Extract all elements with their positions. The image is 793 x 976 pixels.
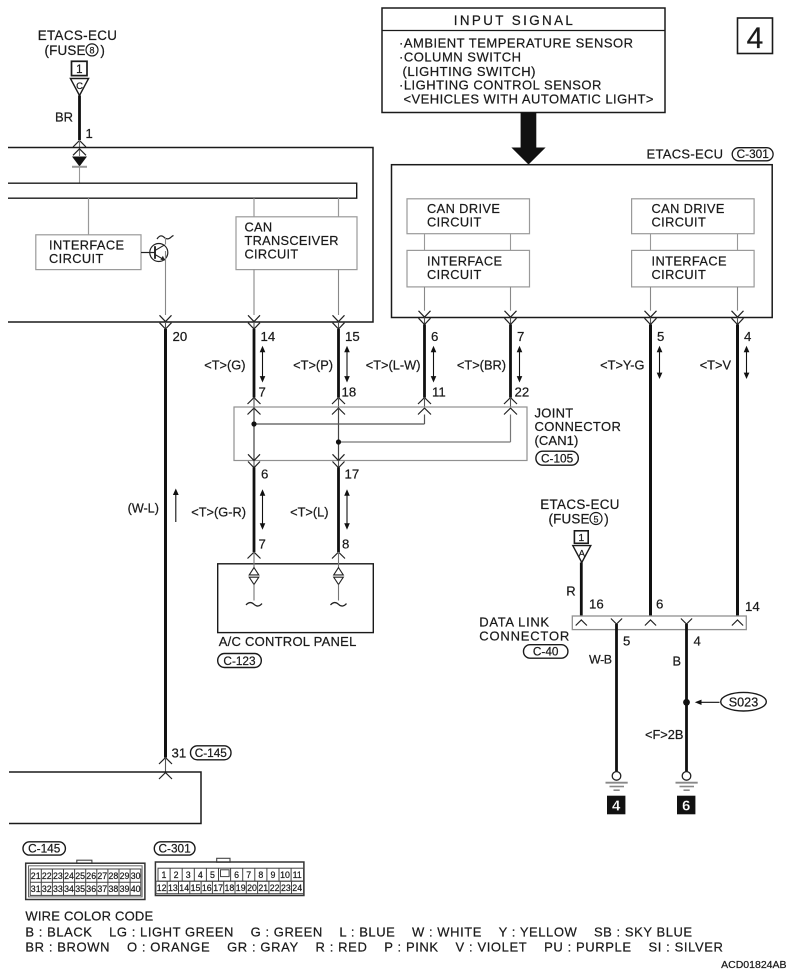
- svg-text:7: 7: [246, 870, 251, 880]
- svg-text:13: 13: [168, 883, 178, 893]
- joint connector exit marks (pins 6,17): [248, 454, 359, 481]
- svg-text:C-301: C-301: [159, 842, 191, 856]
- ground (pin 5 wire): [606, 772, 628, 791]
- svg-text:(CAN1): (CAN1): [535, 433, 579, 448]
- svg-text:4: 4: [694, 634, 701, 649]
- svg-text:ETACS-ECU: ETACS-ECU: [647, 147, 724, 162]
- A/C pin 7 entry marks and terminator: [246, 552, 262, 606]
- svg-text:30: 30: [131, 871, 141, 881]
- svg-text:2: 2: [174, 870, 179, 880]
- DLC exit marks pins 5,4: [611, 619, 701, 649]
- svg-text:11: 11: [432, 385, 446, 400]
- input signal arrow into ETACS-ECU: [511, 113, 545, 165]
- interface circuit box (left ECU): [36, 235, 141, 270]
- fuse 1 (FUSE 8): [72, 61, 88, 76]
- label C-301 (connector face): [154, 842, 195, 856]
- svg-text:16: 16: [589, 597, 604, 612]
- svg-text:7: 7: [259, 385, 266, 400]
- svg-text:·COLUMN SWITCH: ·COLUMN SWITCH: [399, 50, 522, 65]
- svg-text:16: 16: [202, 883, 212, 893]
- svg-text:B : BLACK LG : LIGHT GREEN: B : BLACK LG : LIGHT GREEN G : GREEN L :…: [25, 924, 692, 939]
- svg-text:17: 17: [345, 467, 360, 482]
- svg-text:<T>(P): <T>(P): [293, 358, 333, 373]
- svg-text:(FUSE: (FUSE: [45, 43, 86, 58]
- label C-145 (connector face): [23, 842, 65, 856]
- svg-text:31: 31: [172, 746, 187, 761]
- svg-text:34: 34: [64, 884, 74, 894]
- svg-text:C-301: C-301: [737, 147, 769, 161]
- fuse 1 (FUSE 5): [574, 531, 588, 544]
- page number box 4: [738, 18, 773, 55]
- wire color code: [25, 909, 723, 955]
- svg-text:25: 25: [75, 871, 85, 881]
- CAN transceiver circuit box: [236, 198, 357, 315]
- svg-text:CIRCUIT: CIRCUIT: [49, 251, 104, 266]
- svg-text:32: 32: [42, 884, 52, 894]
- A/C pin 8 entry marks and terminator: [331, 552, 347, 606]
- svg-text:15: 15: [345, 329, 360, 344]
- svg-text:36: 36: [86, 884, 96, 894]
- svg-text:4: 4: [744, 329, 751, 344]
- svg-text:21: 21: [31, 871, 41, 881]
- svg-text:·AMBIENT TEMPERATURE SENSOR: ·AMBIENT TEMPERATURE SENSOR: [399, 36, 634, 51]
- svg-text:6: 6: [682, 798, 690, 815]
- svg-text:S023: S023: [729, 695, 758, 709]
- svg-text:31: 31: [31, 884, 41, 894]
- interface circuit box (right ECU, right pair): [632, 234, 755, 311]
- connector A triangle: [573, 546, 591, 563]
- joint connector (CAN1) box: [234, 407, 527, 461]
- pin 20 exit (left ECU box): [160, 315, 188, 344]
- right ETACS-ECU box: [392, 165, 773, 318]
- svg-text:3: 3: [186, 870, 191, 880]
- label DATA LINK CONNECTOR (C-40): [479, 615, 570, 659]
- joint connector internal wires: [251, 407, 510, 461]
- svg-text:C: C: [76, 81, 83, 92]
- svg-text:DATA LINK: DATA LINK: [479, 615, 549, 630]
- pin 7 exit (right ECU): [505, 311, 525, 344]
- svg-text:·LIGHTING CONTROL SENSOR: ·LIGHTING CONTROL SENSOR: [399, 78, 602, 93]
- CAN drive circuit box (left pair): [407, 199, 530, 234]
- svg-text:22: 22: [515, 385, 530, 400]
- svg-text:<T>V: <T>V: [700, 358, 732, 373]
- wire (W-L) pin 20 to pin 31: [128, 329, 179, 758]
- svg-text:): ): [604, 511, 608, 526]
- label JOINT CONNECTOR (CAN1) (C-105): [535, 406, 622, 466]
- svg-text:15: 15: [191, 883, 201, 893]
- svg-text:<T>(L-W): <T>(L-W): [366, 358, 421, 373]
- INPUT SIGNAL box: [382, 8, 665, 113]
- svg-text:<VEHICLES WITH AUTOMATIC LIGHT: <VEHICLES WITH AUTOMATIC LIGHT>: [404, 92, 654, 107]
- svg-text:1: 1: [162, 870, 167, 880]
- svg-text:18: 18: [225, 883, 235, 893]
- wire CAN <T>(G-R) joint 6 to A/C 7: [191, 468, 266, 553]
- wire BR (fuse to ECU pin 1): [55, 96, 93, 142]
- svg-text:): ): [100, 43, 104, 58]
- svg-text:BR : BROWN O : ORANGE GR: BR : BROWN O : ORANGE GR : GRAY R : RED …: [25, 940, 723, 955]
- svg-text:C-40: C-40: [533, 645, 559, 659]
- svg-text:WIRE COLOR CODE: WIRE COLOR CODE: [25, 909, 153, 924]
- wire bus to interface circuit: [88, 198, 90, 235]
- svg-text:1: 1: [578, 532, 584, 544]
- svg-text:6: 6: [234, 870, 239, 880]
- drawing number: [721, 959, 786, 971]
- svg-text:<F>2B: <F>2B: [645, 727, 683, 742]
- bottom-left box (open at left edge): [9, 772, 201, 824]
- svg-text:6: 6: [431, 329, 438, 344]
- svg-text:23: 23: [281, 883, 291, 893]
- svg-text:22: 22: [42, 871, 52, 881]
- svg-text:B: B: [673, 654, 682, 669]
- svg-text:5: 5: [210, 870, 215, 880]
- svg-text:40: 40: [131, 884, 141, 894]
- svg-text:4: 4: [747, 22, 764, 55]
- svg-text:21: 21: [258, 883, 268, 893]
- pin 15 exit: [333, 315, 360, 344]
- svg-text:37: 37: [97, 884, 107, 894]
- svg-text:20: 20: [247, 883, 257, 893]
- pin 4 exit (right ECU): [732, 311, 752, 344]
- pin 5 exit (right ECU): [645, 311, 665, 344]
- wire CAN <T>(L) joint 17 to A/C 8: [290, 468, 350, 553]
- connector C triangle: [70, 79, 88, 96]
- CAN drive circuit box (right pair): [632, 199, 755, 234]
- splice S023: [683, 692, 766, 711]
- wire <T>V pin 4 to DLC 14: [700, 325, 750, 617]
- ground ref 4: [607, 796, 625, 815]
- svg-text:19: 19: [236, 883, 246, 893]
- left ECU box (open at left edge): [8, 148, 373, 323]
- svg-text:A/C CONTROL PANEL: A/C CONTROL PANEL: [219, 634, 357, 649]
- svg-text:14: 14: [745, 599, 760, 614]
- wire B DLC 4 to ground: [645, 624, 687, 772]
- svg-text:4: 4: [612, 798, 621, 815]
- pin 31 entry into bottom box: [159, 746, 231, 780]
- svg-text:(FUSE: (FUSE: [549, 511, 590, 526]
- data link connector box: [572, 616, 746, 630]
- svg-text:BR: BR: [55, 110, 73, 125]
- label ETACS-ECU (C-301): [647, 147, 774, 162]
- svg-text:C-123: C-123: [223, 654, 256, 668]
- svg-text:28: 28: [109, 871, 119, 881]
- svg-text:CONNECTOR: CONNECTOR: [535, 419, 622, 434]
- svg-text:W-B: W-B: [589, 653, 612, 667]
- svg-text:(W-L): (W-L): [128, 502, 159, 516]
- wire CAN <T>(L-W) pin 6 to joint 11: [366, 325, 446, 400]
- wire CAN <T>(BR) pin 7 to joint 22: [457, 325, 529, 400]
- pin 6 exit (right ECU): [419, 311, 439, 344]
- svg-text:22: 22: [270, 883, 280, 893]
- pin 14 exit: [248, 315, 275, 344]
- internal bus bar: [8, 183, 357, 198]
- svg-text:<T>(L): <T>(L): [290, 505, 328, 520]
- label ETACS-ECU (FUSE 5): [540, 497, 620, 527]
- svg-text:14: 14: [261, 329, 276, 344]
- svg-text:5: 5: [593, 514, 598, 524]
- svg-text:CIRCUIT: CIRCUIT: [652, 214, 707, 229]
- svg-text:7: 7: [517, 329, 524, 344]
- svg-text:12: 12: [157, 883, 167, 893]
- svg-text:CIRCUIT: CIRCUIT: [427, 267, 482, 282]
- svg-text:1: 1: [86, 126, 93, 141]
- svg-text:CIRCUIT: CIRCUIT: [427, 214, 482, 229]
- svg-text:C-105: C-105: [541, 452, 574, 466]
- interface circuit box (right ECU, left pair): [407, 234, 530, 311]
- diode inside left ECU box: [72, 157, 87, 184]
- svg-text:CIRCUIT: CIRCUIT: [245, 247, 299, 262]
- svg-text:11: 11: [293, 870, 302, 880]
- svg-text:8: 8: [342, 537, 349, 552]
- wire CAN <T>(G) pin 14 to joint 7: [204, 329, 266, 400]
- wire CAN <T>(P) pin 15 to joint 18: [293, 329, 356, 400]
- svg-text:38: 38: [109, 884, 119, 894]
- svg-text:9: 9: [270, 870, 275, 880]
- svg-text:ETACS-ECU: ETACS-ECU: [540, 497, 620, 512]
- svg-text:24: 24: [64, 871, 74, 881]
- svg-text:8: 8: [89, 46, 94, 56]
- svg-text:26: 26: [86, 871, 96, 881]
- svg-text:INPUT SIGNAL: INPUT SIGNAL: [454, 13, 576, 28]
- svg-text:14: 14: [179, 883, 189, 893]
- svg-text:10: 10: [280, 870, 290, 880]
- joint connector entry marks (wires 7,18,11,22): [248, 398, 518, 415]
- svg-text:<T>(G): <T>(G): [204, 358, 245, 373]
- svg-text:CIRCUIT: CIRCUIT: [652, 267, 707, 282]
- svg-text:4: 4: [198, 870, 203, 880]
- svg-text:<T>(BR): <T>(BR): [457, 358, 506, 373]
- connector C-145 pin face: [26, 860, 145, 899]
- svg-text:18: 18: [342, 385, 357, 400]
- svg-text:6: 6: [656, 597, 663, 612]
- wire R fuse to DLC 16: [566, 563, 603, 617]
- svg-text:R: R: [566, 584, 575, 599]
- svg-text:20: 20: [173, 329, 188, 344]
- svg-text:1: 1: [76, 64, 82, 76]
- label ETACS-ECU (FUSE 8) top-left: [38, 28, 118, 58]
- connector C-301 pin face: [155, 858, 304, 895]
- svg-text:5: 5: [623, 634, 630, 649]
- svg-text:17: 17: [213, 883, 223, 893]
- svg-text:23: 23: [53, 871, 63, 881]
- svg-text:ETACS-ECU: ETACS-ECU: [38, 28, 118, 43]
- svg-text:C-145: C-145: [195, 746, 228, 760]
- svg-text:CONNECTOR: CONNECTOR: [479, 628, 570, 643]
- svg-text:C-145: C-145: [28, 842, 61, 856]
- connector marks pin 1 into left ECU box: [73, 140, 86, 156]
- svg-text:6: 6: [261, 467, 268, 482]
- svg-text:8: 8: [258, 870, 263, 880]
- A/C control panel box: [218, 564, 374, 668]
- DLC entry marks pins 16,6,14: [576, 597, 760, 626]
- wire <T>Y-G pin 5 to DLC 6: [600, 325, 662, 617]
- svg-text:39: 39: [120, 884, 130, 894]
- svg-text:24: 24: [292, 883, 302, 893]
- transistor Q1: [141, 236, 174, 316]
- svg-text:33: 33: [53, 884, 63, 894]
- svg-text:<T>Y-G: <T>Y-G: [600, 358, 644, 373]
- svg-text:5: 5: [657, 329, 664, 344]
- svg-text:7: 7: [259, 537, 266, 552]
- svg-text:A: A: [579, 549, 586, 560]
- svg-text:<T>(G-R): <T>(G-R): [191, 505, 246, 520]
- ground (pin 4 wire): [676, 772, 698, 791]
- wire W-B DLC 5 to ground: [589, 624, 617, 772]
- svg-text:ACD01824AB: ACD01824AB: [721, 959, 786, 971]
- ground ref 6: [677, 796, 695, 815]
- svg-text:35: 35: [75, 884, 85, 894]
- svg-text:29: 29: [120, 871, 130, 881]
- svg-text:27: 27: [97, 871, 107, 881]
